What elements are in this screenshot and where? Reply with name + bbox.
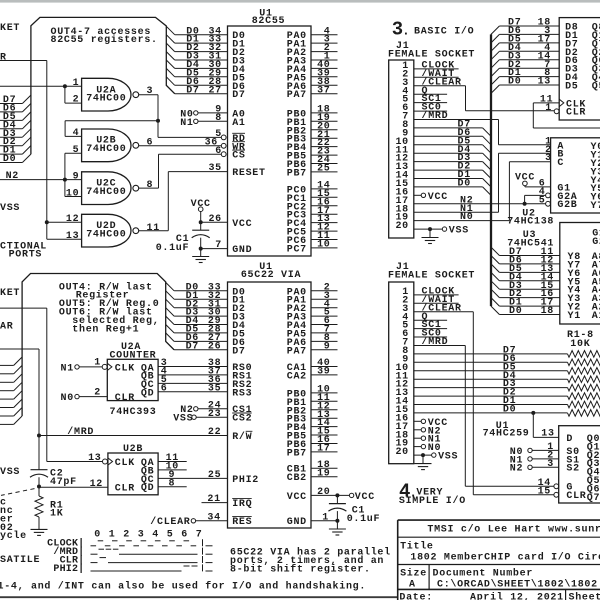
svg-text:13: 13 xyxy=(538,77,551,88)
ic U1 74HC259 body xyxy=(559,426,600,503)
J1-2 pin20 OVSS xyxy=(414,454,432,456)
svg-text:1-4, and /INT can also be used: 1-4, and /INT can also be used for I/O a… xyxy=(0,580,366,592)
bus trunk around note box 2 (OUT4 note) xyxy=(22,274,174,417)
svg-text:RES: RES xyxy=(232,517,252,528)
svg-text:6: 6 xyxy=(181,530,188,541)
svg-text:D: D xyxy=(566,434,573,445)
svg-text:AR: AR xyxy=(0,321,13,332)
node D0 branch to 259 xyxy=(531,411,535,415)
svg-text:PHI2|: PHI2| xyxy=(53,563,84,575)
wire U2B output to WR xyxy=(139,145,222,147)
svg-text:S2: S2 xyxy=(566,464,579,475)
svg-text:27: 27 xyxy=(208,85,221,96)
wire counter2 QC to PHI2 pin 25 xyxy=(158,477,227,479)
65C22 CA1 CA2 pins right xyxy=(311,366,338,368)
svg-text:35: 35 xyxy=(208,383,221,394)
svg-text:20: 20 xyxy=(395,447,408,458)
ground at C1 xyxy=(192,256,209,258)
svg-text:20: 20 xyxy=(317,487,330,498)
svg-text:34: 34 xyxy=(207,512,220,523)
svg-text:3: 3 xyxy=(545,153,552,164)
svg-text:8: 8 xyxy=(215,113,222,124)
svg-text:N0: N0 xyxy=(460,212,473,223)
svg-text:PA7: PA7 xyxy=(287,90,307,101)
wire U2A pin1 xyxy=(65,85,82,87)
svg-text:VSS: VSS xyxy=(0,467,20,478)
svg-text:12: 12 xyxy=(66,214,79,225)
wire U2D pin13 xyxy=(46,222,48,239)
wire /CLEAR-2 to 259 CLR xyxy=(414,311,474,313)
svg-text:2: 2 xyxy=(123,530,130,541)
svg-text:N1: N1 xyxy=(180,118,193,129)
ic U3 74HC541 body xyxy=(560,223,600,325)
svg-text:Title: Title xyxy=(400,541,434,553)
node OUT-decode branch xyxy=(156,119,160,123)
svg-text:SIMPLE I/O: SIMPLE I/O xyxy=(399,495,466,507)
svg-text:82C55: 82C55 xyxy=(252,16,286,27)
svg-text:G2: G2 xyxy=(592,237,600,248)
svg-text:13: 13 xyxy=(66,231,79,242)
page border bottom xyxy=(0,596,398,598)
svg-text:PHI2: PHI2 xyxy=(232,475,259,486)
svg-text:0.1uF: 0.1uF xyxy=(347,514,381,525)
svg-text:RS3: RS3 xyxy=(232,388,252,399)
svg-text:KET: KET xyxy=(0,23,20,34)
svg-text:Size: Size xyxy=(400,567,427,579)
svg-text:D7: D7 xyxy=(186,85,199,96)
ground at J1-2 xyxy=(415,463,432,465)
wire U2D pin12 xyxy=(47,221,82,223)
bus trunk around note box 1 (OUT4-7 note) xyxy=(31,17,175,154)
svg-text:25: 25 xyxy=(208,470,221,481)
svg-text:A1: A1 xyxy=(232,118,245,129)
ic 74HC273 latch body xyxy=(559,18,600,120)
svg-text:CB2: CB2 xyxy=(287,473,307,484)
svg-text:CLR: CLR xyxy=(115,484,135,495)
svg-text:5: 5 xyxy=(167,530,174,541)
svg-text:6: 6 xyxy=(147,137,154,148)
nand U2D 74HC00 xyxy=(82,214,131,247)
svg-text:GND: GND xyxy=(287,517,307,528)
wire U2C pin10 xyxy=(65,196,82,198)
svg-text:KET: KET xyxy=(0,288,20,299)
J1-1 data wires D7-D0 to bus xyxy=(414,127,483,129)
svg-text:VCC: VCC xyxy=(515,173,535,184)
svg-text:74HC00: 74HC00 xyxy=(86,144,126,155)
wire N2 to 138 G2A G2B xyxy=(414,203,546,205)
wire 273 CLK pin 11 from decoder xyxy=(533,102,559,104)
273 data input wires from bus xyxy=(491,26,499,34)
wire U2A output to RD and U2B xyxy=(139,94,158,96)
svg-text:R/W: R/W xyxy=(232,431,252,443)
resistor R1 1K xyxy=(35,496,43,517)
svg-text:7: 7 xyxy=(196,530,203,541)
svg-text:D0: D0 xyxy=(509,306,522,317)
svg-text:CLR: CLR xyxy=(566,108,586,119)
svg-text:D0: D0 xyxy=(3,154,16,165)
svg-text:17: 17 xyxy=(317,444,330,455)
svg-text:VSS: VSS xyxy=(0,203,20,214)
svg-text:37: 37 xyxy=(317,85,330,96)
svg-text:D7: D7 xyxy=(232,90,245,101)
svg-text:21: 21 xyxy=(207,494,220,505)
svg-text:39: 39 xyxy=(317,367,330,378)
541 data wires from bus xyxy=(491,247,499,255)
svg-text:D7: D7 xyxy=(232,346,245,357)
node GND-C1 xyxy=(199,247,203,251)
svg-text:VCC: VCC xyxy=(428,192,448,203)
wires counter QA-QD to RS0-RS3 xyxy=(158,366,227,368)
svg-text:/MRD: /MRD xyxy=(67,426,94,438)
svg-text:BASIC I/O: BASIC I/O xyxy=(414,26,474,38)
svg-text:11: 11 xyxy=(147,223,160,234)
svg-text:Q7: Q7 xyxy=(587,493,600,504)
svg-text:VSS: VSS xyxy=(173,414,193,425)
svg-text:3: 3 xyxy=(147,86,154,97)
J1-2 signal stubs CLOCK /WAIT Q SC1 SC0 xyxy=(414,294,459,296)
svg-text:74HC138: 74HC138 xyxy=(507,217,554,228)
svg-text:PB7: PB7 xyxy=(287,448,307,459)
svg-text:G2B: G2B xyxy=(557,200,577,211)
svg-text:22: 22 xyxy=(208,427,221,438)
82C55 port C pins right xyxy=(311,188,338,190)
svg-text:PC7: PC7 xyxy=(287,244,307,255)
svg-text:SATILE: SATILE xyxy=(0,555,40,566)
ic U2 74HC138 body xyxy=(551,138,600,213)
82C55 data bus entries D0-D7 xyxy=(166,26,174,34)
svg-text:VCC: VCC xyxy=(191,199,211,210)
65C22 data bus entries D0-D7 xyxy=(166,282,174,290)
J1-1 pin20 OVSS xyxy=(414,228,443,230)
svg-text:VCC: VCC xyxy=(232,219,252,230)
svg-text:PORTS: PORTS xyxy=(9,250,43,261)
J1-1 signal stubs CLOCK /WAIT Q SC1 SC0 xyxy=(414,68,459,70)
svg-text:1: 1 xyxy=(94,358,101,369)
65C22 VCC pin 20 to OVCC xyxy=(311,494,349,496)
J1-2 pin17 ON2 xyxy=(414,429,421,431)
svg-text:CLR: CLR xyxy=(115,393,135,404)
svg-text:N1: N1 xyxy=(61,363,74,374)
svg-text:.: . xyxy=(402,23,410,38)
svg-text:13: 13 xyxy=(541,428,554,439)
capacitor C1 0.1uF (82C55) xyxy=(192,229,209,231)
svg-text:3: 3 xyxy=(547,459,554,470)
wire U2A pin2 xyxy=(65,102,82,104)
svg-text:3: 3 xyxy=(138,530,145,541)
svg-text:9: 9 xyxy=(324,341,331,352)
svg-text:QD: QD xyxy=(141,389,154,400)
wire U2D output to RESET xyxy=(139,230,169,232)
J1-1 pin16 OVCC xyxy=(414,194,421,196)
wires counter2 QA QB QD stubs xyxy=(158,461,187,463)
svg-text:/CLEAR: /CLEAR xyxy=(150,516,190,528)
wire U2C output to CS xyxy=(139,187,159,189)
svg-text:C:\ORCAD\SHEET\1802\1802: C:\ORCAD\SHEET\1802\1802 xyxy=(437,579,598,591)
page border top xyxy=(0,0,600,3)
82C55 pin CS bubble xyxy=(221,152,226,157)
ground at J1-1 xyxy=(422,237,439,239)
svg-text:6: 6 xyxy=(161,383,168,394)
ic U1 82C55 body xyxy=(228,26,312,256)
wire IRQ stub pin 21 xyxy=(202,502,228,504)
svg-text:A1: A1 xyxy=(592,311,600,322)
svg-text:1: 1 xyxy=(109,530,116,541)
J1-2 pin19 ON0 xyxy=(414,446,421,448)
svg-text:CLK: CLK xyxy=(115,363,135,374)
svg-text:1: 1 xyxy=(73,78,80,89)
259 G pin 14 bubble xyxy=(554,484,559,489)
wire N2 to G2A G2B bubbles xyxy=(523,202,527,206)
svg-text:/MRD: /MRD xyxy=(422,336,449,348)
ground at R1 xyxy=(31,528,48,530)
svg-text:D7: D7 xyxy=(186,341,199,352)
node VCC-C1 xyxy=(199,220,203,224)
wire /MRD-1 to 74HC138 A xyxy=(414,119,499,121)
259 CLR pin 15 bubble xyxy=(554,492,559,497)
svg-text:1802 MemberCHIP card I/O Circ: 1802 MemberCHIP card I/O Circ xyxy=(410,552,600,564)
svg-text:4: 4 xyxy=(73,128,80,139)
svg-text:74HC393: 74HC393 xyxy=(110,407,157,418)
svg-text:18: 18 xyxy=(541,306,554,317)
svg-text:47pF: 47pF xyxy=(50,477,77,488)
65C22 port B pins right xyxy=(311,392,338,394)
J1-2 data wires D7-D0 to resistors xyxy=(414,353,568,355)
svg-text:0.1uF: 0.1uF xyxy=(156,243,190,254)
svg-text:Sheet: Sheet xyxy=(569,591,600,600)
svg-text:25: 25 xyxy=(317,164,330,175)
node RC junction xyxy=(37,485,41,489)
nand U2B 74HC00 xyxy=(82,129,131,162)
J1-2 pin18 ON1 xyxy=(414,437,421,439)
82C55 port A pins right xyxy=(311,34,338,36)
svg-text:QD: QD xyxy=(141,483,154,494)
svg-text:CA2: CA2 xyxy=(287,371,307,382)
svg-text:C: C xyxy=(557,158,564,169)
svg-text:26: 26 xyxy=(208,341,221,352)
svg-text:1K: 1K xyxy=(50,509,63,520)
svg-text:RESET: RESET xyxy=(232,168,266,179)
title block frame xyxy=(398,519,600,521)
wire N1 to 138 B xyxy=(414,211,499,213)
svg-text:VSS: VSS xyxy=(438,452,458,463)
svg-text:D0: D0 xyxy=(503,405,516,416)
svg-text:23: 23 xyxy=(208,409,221,420)
node U2D input tie xyxy=(45,220,49,224)
svg-text:D0: D0 xyxy=(508,77,521,88)
svg-text:N2: N2 xyxy=(510,464,523,475)
svg-text:VSS: VSS xyxy=(449,226,469,237)
wire N0 to 138 C xyxy=(414,220,510,222)
svg-text:9: 9 xyxy=(168,470,175,481)
svg-text:PB7: PB7 xyxy=(287,168,307,179)
svg-text:0: 0 xyxy=(94,530,101,541)
82C55 port B pins right xyxy=(311,112,338,114)
svg-text:GND: GND xyxy=(232,245,252,256)
svg-text:D5: D5 xyxy=(565,82,578,93)
J1-2 pin16 OVCC xyxy=(414,420,421,422)
svg-text:8: 8 xyxy=(147,180,154,191)
ic U1 65C22 VIA body xyxy=(228,282,312,528)
wire U2B pin5 from N2 xyxy=(65,152,82,154)
node N2 tie xyxy=(63,178,67,182)
svg-text:VCC: VCC xyxy=(355,492,375,503)
svg-text:7: 7 xyxy=(215,240,222,251)
65C22 CB1 CB2 pins right xyxy=(311,467,338,469)
svg-text:Document Number: Document Number xyxy=(433,567,534,579)
svg-text:N2: N2 xyxy=(6,171,19,182)
svg-text:FEMALE SOCKET: FEMALE SOCKET xyxy=(388,50,475,61)
svg-text:CS2: CS2 xyxy=(232,414,252,425)
svg-text:6: 6 xyxy=(215,146,222,157)
node /MRD junction at R-C xyxy=(37,434,41,438)
dashed link to cycle note xyxy=(1,489,35,496)
svg-text:26: 26 xyxy=(208,214,221,225)
svg-text:10K: 10K xyxy=(570,339,590,350)
svg-text:74HC00: 74HC00 xyxy=(86,187,126,198)
svg-text:5: 5 xyxy=(539,195,546,206)
wire /CLEAR-1 to 74HC273 CLR xyxy=(414,85,466,87)
82C55 pin WR bubble xyxy=(221,143,226,148)
svg-text:Y1: Y1 xyxy=(568,311,581,322)
svg-text:15: 15 xyxy=(538,486,551,497)
node GND-C1b xyxy=(335,519,339,523)
svg-text:Y7: Y7 xyxy=(591,201,600,212)
left data bus lower wedge xyxy=(0,364,14,366)
nand U2A 74HC00 xyxy=(82,78,131,111)
svg-text:10: 10 xyxy=(66,188,79,199)
wire 273 CLR pin 1 bubble xyxy=(554,109,559,114)
svg-text:FEMALE SOCKET: FEMALE SOCKET xyxy=(388,270,475,281)
svg-text:TMSI c/o Lee Hart www.sunris: TMSI c/o Lee Hart www.sunris xyxy=(427,524,600,536)
svg-text:65C22 VIA: 65C22 VIA xyxy=(241,270,301,281)
svg-text:1: 1 xyxy=(322,512,329,523)
svg-text:then Reg+1: then Reg+1 xyxy=(72,324,139,336)
svg-text:13: 13 xyxy=(88,453,101,464)
65C22 port A pins right xyxy=(311,290,338,292)
82C55 pin RD bubble xyxy=(221,135,226,140)
wire /MRD-2 to 259 G xyxy=(414,345,466,347)
svg-text:CLR: CLR xyxy=(566,491,586,502)
svg-text:/MRD: /MRD xyxy=(422,110,449,122)
wire U2C pin9 xyxy=(65,179,82,181)
65C22 GND pin 1 xyxy=(311,520,337,522)
bus trunk vertical (I/O data bus) xyxy=(490,34,492,306)
svg-text:5: 5 xyxy=(73,145,80,156)
svg-text:9: 9 xyxy=(73,171,80,182)
svg-text:4: 4 xyxy=(152,530,159,541)
svg-text:74HC00: 74HC00 xyxy=(86,94,126,105)
svg-text:IRQ: IRQ xyxy=(232,499,252,510)
svg-text:8-bit shift register.: 8-bit shift register. xyxy=(230,563,371,575)
svg-text:CLK: CLK xyxy=(115,458,135,469)
svg-text:82C55 registers.: 82C55 registers. xyxy=(51,34,158,46)
svg-text:R: R xyxy=(0,52,7,63)
svg-text:10: 10 xyxy=(317,240,330,251)
svg-text:Q5: Q5 xyxy=(592,82,600,93)
svg-text:April 12, 2021: April 12, 2021 xyxy=(470,591,564,600)
svg-text:74HC259: 74HC259 xyxy=(483,428,530,439)
svg-text:2: 2 xyxy=(73,95,80,106)
svg-text:12: 12 xyxy=(90,479,103,490)
ground at C1b xyxy=(329,528,346,530)
wire CLOCK-left to counter CLK xyxy=(0,307,47,309)
svg-text:A: A xyxy=(409,580,416,591)
svg-text:35: 35 xyxy=(208,163,221,174)
svg-text:1: 1 xyxy=(545,103,552,114)
svg-text:PA7: PA7 xyxy=(287,346,307,357)
svg-text:D0: D0 xyxy=(458,179,471,190)
svg-text:2: 2 xyxy=(94,387,101,398)
wire /MRD-left xyxy=(0,348,39,350)
wire TPB to U2A inputs xyxy=(0,85,65,87)
data bus D0-D7 upper-left wedge xyxy=(0,103,22,105)
nand U2C 74HC00 xyxy=(82,172,131,205)
svg-text:74HC00: 74HC00 xyxy=(86,230,126,241)
capacitor C1 0.1uF (65C22) xyxy=(336,495,338,503)
svg-text:N0: N0 xyxy=(61,393,74,404)
svg-text:CS: CS xyxy=(232,151,245,162)
node U2A input tie xyxy=(63,84,67,88)
svg-text:20: 20 xyxy=(395,221,408,232)
svg-text:VCC: VCC xyxy=(287,492,307,503)
svg-text:Date:: Date: xyxy=(399,592,433,600)
capacitor C2 47pF xyxy=(31,469,48,471)
svg-text:19: 19 xyxy=(317,468,330,479)
svg-text:ycle: ycle xyxy=(0,530,27,542)
